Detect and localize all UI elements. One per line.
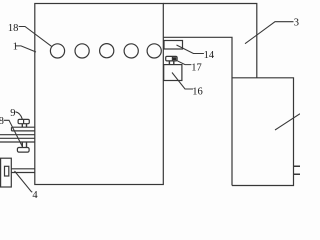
- svg-text:4: 4: [32, 190, 38, 200]
- svg-text:16: 16: [192, 86, 203, 97]
- svg-text:18: 18: [8, 23, 19, 34]
- svg-text:8: 8: [0, 116, 4, 127]
- svg-text:17: 17: [191, 62, 202, 73]
- svg-text:9: 9: [10, 108, 15, 119]
- svg-text:1: 1: [13, 42, 18, 53]
- svg-text:3: 3: [294, 18, 299, 29]
- svg-text:14: 14: [204, 50, 215, 61]
